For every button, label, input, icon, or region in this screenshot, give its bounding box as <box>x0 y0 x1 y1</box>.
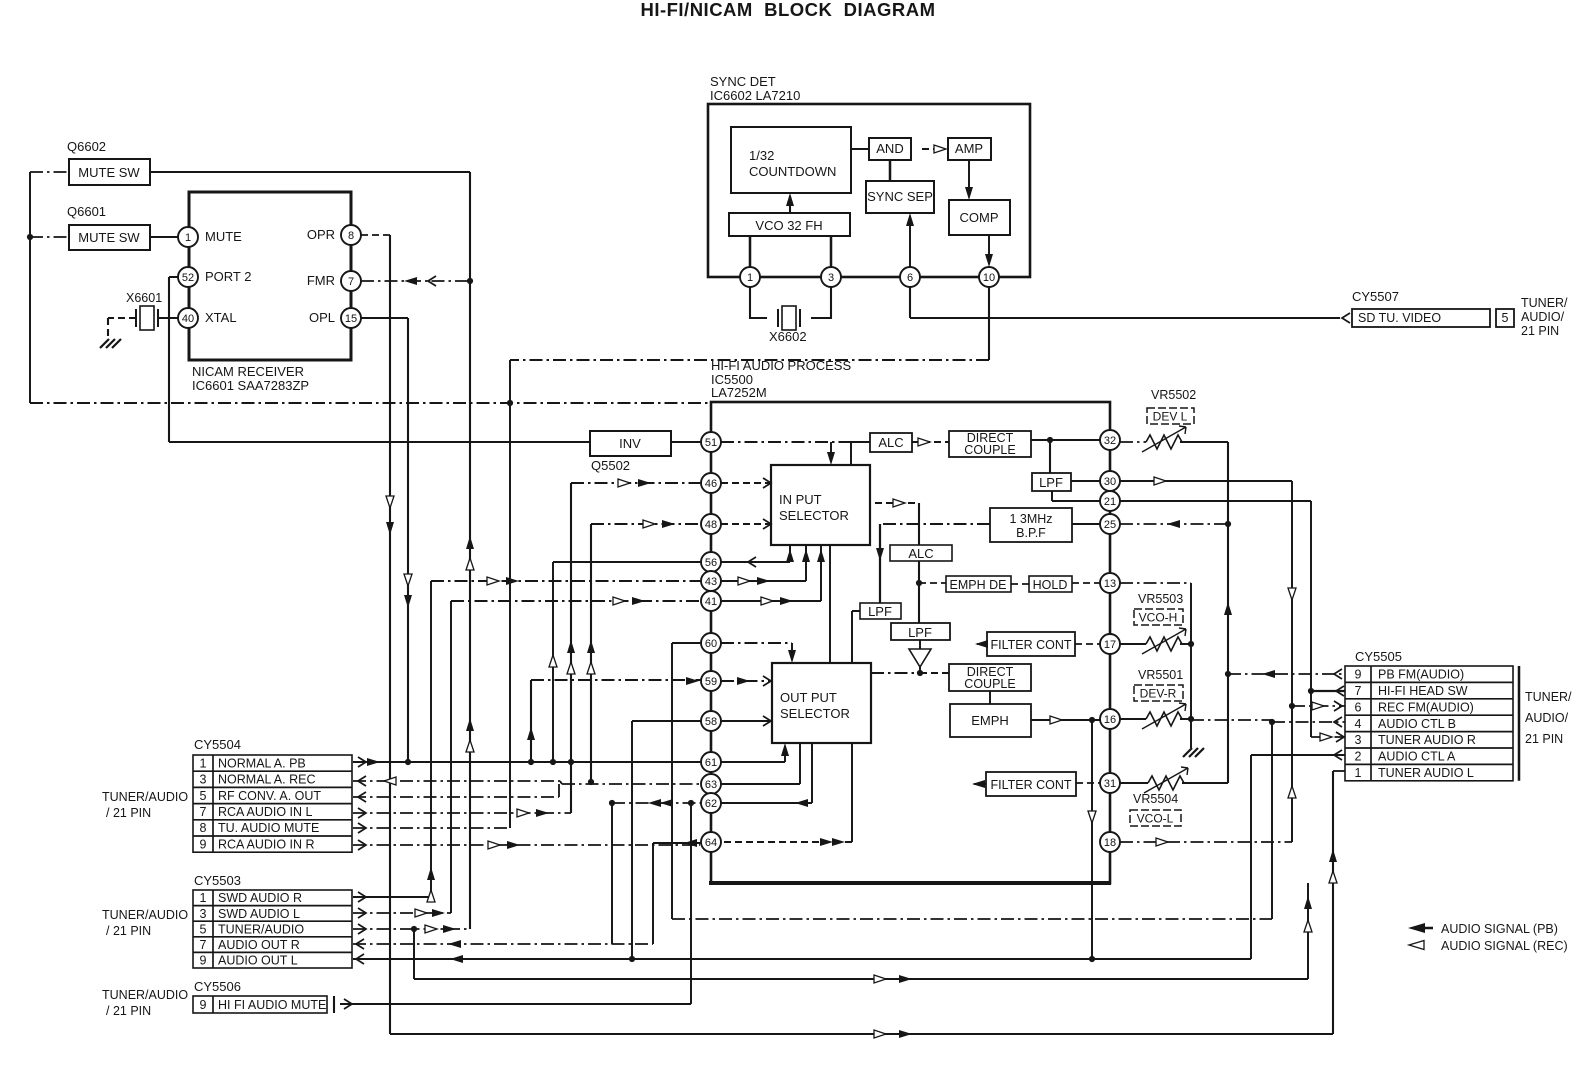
gate AND <box>869 138 911 160</box>
svg-text:AUDIO CTL B: AUDIO CTL B <box>1378 717 1456 731</box>
svg-text:AUDIO SIGNAL (REC): AUDIO SIGNAL (REC) <box>1441 939 1568 953</box>
wire FMR row <box>361 280 470 282</box>
wire HOLD to pin 13 <box>1072 582 1100 584</box>
wire pin 10 down and left to junction <box>988 287 990 360</box>
svg-text:7: 7 <box>348 276 354 288</box>
pin 56 (IC5500 left) <box>701 552 721 572</box>
svg-text:6: 6 <box>1355 700 1362 714</box>
wire pin 31 to VR5504 <box>1120 782 1148 784</box>
wire rail pin60 to AUDIO OUT R <box>611 803 613 944</box>
wire rail y979 <box>414 929 1308 979</box>
svg-text:MUTE: MUTE <box>205 229 242 244</box>
wire TUNER AUDIO R row <box>1311 736 1345 738</box>
svg-text:HI-FI HEAD SW: HI-FI HEAD SW <box>1378 684 1468 698</box>
svg-text:VCO-H: VCO-H <box>1139 611 1178 625</box>
block FILTER CONT (to pin 31) <box>986 772 1076 796</box>
block SYNC SEP <box>866 181 934 213</box>
svg-text:AUDIO/: AUDIO/ <box>1521 310 1565 324</box>
block LPF (to pin 30) <box>1032 473 1071 491</box>
svg-text:IN PUT: IN PUT <box>779 492 822 507</box>
block LPF (small left) <box>860 603 901 619</box>
block 1/32 COUNTDOWN <box>731 127 851 193</box>
svg-text:8: 8 <box>200 821 207 835</box>
wire REC FM row <box>1292 705 1345 707</box>
wire pin 30 row and rail <box>1120 480 1292 482</box>
svg-text:ALC: ALC <box>908 546 933 561</box>
svg-text:TUNER AUDIO L: TUNER AUDIO L <box>1378 766 1474 780</box>
connector CY5504 <box>102 737 352 852</box>
wire rail up to TUNER AUDIO L <box>1332 771 1334 1034</box>
svg-text:1: 1 <box>200 891 207 905</box>
svg-text:56: 56 <box>705 557 717 569</box>
oscillator VCO 32 FH <box>729 213 850 236</box>
pin 15 OPL <box>309 308 361 328</box>
pin 1 MUTE <box>178 227 242 247</box>
IC U5500 HI-FI AUDIO PROCESS block <box>709 358 1111 883</box>
svg-text:MUTE SW: MUTE SW <box>78 165 140 180</box>
svg-text:EMPH DE: EMPH DE <box>950 578 1007 592</box>
svg-text:7: 7 <box>200 938 207 952</box>
wire LPF to pin 21 <box>1052 491 1100 501</box>
svg-text:REC FM(AUDIO): REC FM(AUDIO) <box>1378 700 1474 714</box>
pin 62 (IC5500 left) <box>701 793 721 813</box>
wire pin 43 row <box>431 580 701 582</box>
wire pin 62 row left <box>612 802 701 804</box>
svg-text:FMR: FMR <box>307 273 335 288</box>
legend: audio signal REC <box>1409 939 1568 953</box>
pin 6 (sync det) <box>900 267 920 287</box>
pin 60 (IC5500 left) <box>701 633 721 653</box>
wire pin 21 row and rail <box>1120 500 1311 502</box>
inverter Q5502 INV <box>590 431 671 473</box>
wire pin 32 to VR5502 <box>1120 441 1146 443</box>
wire to EMPH DE <box>919 582 946 584</box>
svg-text:SELECTOR: SELECTOR <box>779 508 849 523</box>
svg-text:1: 1 <box>1355 766 1362 780</box>
pin 46 (IC5500 left) <box>701 473 721 493</box>
wire y919 dash rail <box>672 918 1272 920</box>
wire pin 6 to SYNC SEP <box>909 216 911 267</box>
svg-text:1 3MHz: 1 3MHz <box>1009 512 1052 526</box>
wire FILTER CONT left arrow <box>977 643 987 645</box>
svg-text:TUNER/AUDIO: TUNER/AUDIO <box>102 908 188 922</box>
wire countdown to AND <box>851 148 869 150</box>
svg-text:10: 10 <box>983 272 995 284</box>
svg-text:CY5505: CY5505 <box>1355 649 1402 664</box>
wire VCO to countdown <box>789 196 791 213</box>
amplifier triangle (inverter) <box>909 649 931 667</box>
svg-text:32: 32 <box>1104 435 1116 447</box>
svg-text:/ 21 PIN: / 21 PIN <box>106 806 151 820</box>
svg-text:21 PIN: 21 PIN <box>1521 324 1559 338</box>
svg-text:30: 30 <box>1104 476 1116 488</box>
wire pin 59 into output selector <box>721 680 771 682</box>
IC U6602 SYNC DET block <box>708 74 1030 277</box>
IC U6601 NICAM RECEIVER block <box>189 192 351 393</box>
wire FILTER CONT 2 left arrow <box>974 783 986 785</box>
wire TUNER AUDIO L row stub <box>1333 770 1345 772</box>
svg-text:6: 6 <box>907 272 913 284</box>
wire pin 56 row left <box>553 561 701 563</box>
svg-text:SYNC DET: SYNC DET <box>710 74 776 89</box>
svg-text:OUT PUT: OUT PUT <box>780 690 837 705</box>
pin 16 (IC5500 right) <box>1100 709 1120 729</box>
wire rail pin60 to audio ctl B <box>671 643 673 919</box>
svg-text:TUNER/: TUNER/ <box>1525 690 1572 704</box>
wire HI FI AUDIO MUTE row <box>340 1003 691 1005</box>
wire pin 13 to bias rail <box>1120 582 1191 584</box>
svg-text:15: 15 <box>345 313 357 325</box>
svg-text:EMPH: EMPH <box>971 713 1009 728</box>
wire OPL pin 15 down rail <box>361 317 408 319</box>
wire AUDIO OUT L row <box>353 958 1251 960</box>
pin 13 (IC5500 right) <box>1100 573 1120 593</box>
connector CY5506 HI FI AUDIO MUTE <box>102 979 334 1018</box>
svg-text:48: 48 <box>705 519 717 531</box>
svg-text:PB FM(AUDIO): PB FM(AUDIO) <box>1378 668 1464 682</box>
wire junction to output selector <box>871 672 920 674</box>
svg-text:17: 17 <box>1104 639 1116 651</box>
wire PB FM row <box>1228 673 1345 675</box>
svg-text:/ 21 PIN: / 21 PIN <box>106 1004 151 1018</box>
svg-text:X6601: X6601 <box>126 291 162 305</box>
filter 1.3MHz B.P.F <box>990 508 1072 542</box>
wire TUNER/AUDIO row <box>353 928 470 930</box>
svg-text:COUPLE: COUPLE <box>964 443 1015 457</box>
potentiometer VR5503 VCO-H <box>1134 592 1183 625</box>
wire pin 16 junction down to AUDIO OUT L <box>1091 720 1093 959</box>
svg-text:63: 63 <box>705 779 717 791</box>
wire HI-FI HEAD SW row <box>1311 690 1345 692</box>
wire OPR pin 8 down left rail <box>361 234 390 236</box>
wire bottom rail y1034 <box>390 1033 1333 1035</box>
svg-text:NICAM RECEIVER: NICAM RECEIVER <box>192 364 304 379</box>
wire audio ctl B rail <box>1271 722 1273 919</box>
svg-text:60: 60 <box>705 638 717 650</box>
wire pin 6 to SD TU VIDEO <box>909 287 911 318</box>
wire rail pin 41 to SWD AUDIO L <box>450 601 452 913</box>
wire Q6602 MUTE SW to FMR / tuner audio rail <box>150 171 470 173</box>
block LPF (mid) <box>891 623 950 640</box>
svg-text:LPF: LPF <box>868 604 892 619</box>
pin 7 FMR <box>307 271 361 291</box>
legend: audio signal PB <box>1408 922 1558 936</box>
svg-text:8: 8 <box>348 230 354 242</box>
svg-text:AMP: AMP <box>955 141 983 156</box>
svg-text:40: 40 <box>182 313 194 325</box>
svg-text:43: 43 <box>705 576 717 588</box>
wire hi-fi mute rail <box>690 803 692 1004</box>
potentiometer VR5501 DEV-R <box>1134 668 1183 701</box>
wire junction to LPF <box>1049 440 1051 473</box>
svg-text:DEV-R: DEV-R <box>1140 687 1177 701</box>
svg-text:1: 1 <box>185 232 191 244</box>
wire pin 60 into output selector top <box>721 642 792 644</box>
wire pin 18 row <box>1120 841 1292 843</box>
wire pin 17 to VR5503 <box>1120 643 1146 645</box>
svg-text:AUDIO SIGNAL (PB): AUDIO SIGNAL (PB) <box>1441 922 1558 936</box>
wire pin 56 rail <box>552 562 554 762</box>
svg-text:AUDIO/: AUDIO/ <box>1525 711 1569 725</box>
svg-text:AUDIO CTL A: AUDIO CTL A <box>1378 750 1456 764</box>
svg-text:LA7252M: LA7252M <box>711 385 767 400</box>
wire pin 25 row <box>1120 523 1228 525</box>
wire VR5502 to vertical <box>1180 441 1228 443</box>
wire dashed into AMP <box>922 148 944 150</box>
pin 40 XTAL <box>178 308 237 328</box>
svg-text:59: 59 <box>705 676 717 688</box>
svg-text:SELECTOR: SELECTOR <box>780 706 850 721</box>
block ALC (mid) <box>890 545 952 561</box>
svg-text:CY5506: CY5506 <box>194 979 241 994</box>
svg-text:NORMAL A. PB: NORMAL A. PB <box>218 756 306 770</box>
block HOLD <box>1029 576 1072 592</box>
svg-text:52: 52 <box>182 272 194 284</box>
svg-text:9: 9 <box>200 998 207 1012</box>
pin 21 (IC5500 right) <box>1100 491 1120 511</box>
wire pin 60 row <box>672 642 701 644</box>
svg-text:TUNER AUDIO R: TUNER AUDIO R <box>1378 733 1476 747</box>
pin 63 (IC5500 left) <box>701 774 721 794</box>
svg-text:AUDIO OUT L: AUDIO OUT L <box>218 954 298 968</box>
pin 48 (IC5500 left) <box>701 514 721 534</box>
svg-text:21 PIN: 21 PIN <box>1525 732 1563 746</box>
wire RCA AUDIO IN R row <box>353 844 700 846</box>
svg-text:HI FI AUDIO MUTE: HI FI AUDIO MUTE <box>218 998 326 1012</box>
svg-text:OPL: OPL <box>309 310 335 325</box>
svg-text:7: 7 <box>200 805 207 819</box>
svg-text:21: 21 <box>1104 496 1116 508</box>
svg-text:3: 3 <box>1355 733 1362 747</box>
potentiometer VR5502 DEV L <box>1147 388 1196 424</box>
pin 64 (IC5500 left) <box>701 832 721 852</box>
svg-text:46: 46 <box>705 478 717 490</box>
pin 61 (IC5500 left) <box>701 752 721 772</box>
svg-text:9: 9 <box>1355 668 1362 682</box>
pin 18 (IC5500 right) <box>1100 832 1120 852</box>
svg-text:TUNER/AUDIO: TUNER/AUDIO <box>102 988 188 1002</box>
svg-text:DEV L: DEV L <box>1153 410 1188 424</box>
svg-text:18: 18 <box>1104 837 1116 849</box>
wire LPF to pin 30 <box>1071 480 1100 482</box>
svg-text:58: 58 <box>705 716 717 728</box>
svg-text:VR5501: VR5501 <box>1138 668 1183 682</box>
wire pin 46 to input selector <box>721 482 771 484</box>
wire BPF left to LPF small <box>880 523 990 525</box>
svg-text:3: 3 <box>200 907 207 921</box>
wire SWD AUDIO L row <box>353 912 451 914</box>
svg-text:SWD AUDIO L: SWD AUDIO L <box>218 907 300 921</box>
svg-text:7: 7 <box>1355 684 1362 698</box>
svg-text:5: 5 <box>200 789 207 803</box>
wire pin 61 into output selector bottom <box>721 746 785 762</box>
wire DIRECT COUPLE to EMPH <box>989 691 991 704</box>
pin 1 (sync det) <box>740 267 760 287</box>
svg-text:COMP: COMP <box>960 210 999 225</box>
svg-text:SWD AUDIO R: SWD AUDIO R <box>218 891 302 905</box>
svg-text:HI-FI/NICAM BLOCK DIAGRAM: HI-FI/NICAM BLOCK DIAGRAM <box>640 0 935 20</box>
svg-text:3: 3 <box>828 272 834 284</box>
transistor Q6601 MUTE SW <box>67 204 150 250</box>
block FILTER CONT (to pin 17) <box>987 632 1075 656</box>
wire output selector stub to pin 63 <box>721 743 800 784</box>
ground (X6601) <box>100 339 121 348</box>
wire VCO to pin 1 <box>749 236 752 267</box>
wire AUDIO CTL B row <box>1272 721 1345 723</box>
svg-text:SYNC SEP: SYNC SEP <box>867 189 933 204</box>
wire pin 58 into output selector <box>721 720 771 722</box>
wire AUDIO OUT R row <box>353 943 653 945</box>
svg-text:5: 5 <box>200 922 207 936</box>
svg-text:X6602: X6602 <box>769 329 807 344</box>
svg-text:PORT 2: PORT 2 <box>205 269 251 284</box>
crystal X6602 <box>750 287 831 344</box>
wire BPF to pin 25 <box>1072 523 1100 525</box>
svg-text:Q6602: Q6602 <box>67 139 106 154</box>
comparator COMP <box>949 200 1010 235</box>
svg-text:4: 4 <box>1355 717 1362 731</box>
svg-text:MUTE SW: MUTE SW <box>78 230 140 245</box>
connector CY5505 <box>1345 649 1572 781</box>
wire VCO to pin 3 <box>830 236 833 267</box>
svg-text:AND: AND <box>876 141 903 156</box>
wire pin 48 row <box>591 523 701 525</box>
svg-text:FILTER CONT: FILTER CONT <box>990 778 1071 792</box>
svg-text:25: 25 <box>1104 519 1116 531</box>
pin 17 (IC5500 right) <box>1100 634 1120 654</box>
wire AUDIO CTL A rail <box>1250 755 1252 959</box>
wire FILTER CONT to pin 17 <box>1075 643 1100 645</box>
wire output selector stub to pin 64 <box>851 743 853 842</box>
pin 10 (sync det) <box>979 267 999 287</box>
block DIRECT COUPLE (lower) <box>949 664 1031 691</box>
svg-text:FILTER CONT: FILTER CONT <box>990 638 1071 652</box>
svg-text:VR5502: VR5502 <box>1151 388 1196 402</box>
wire LPF to triangle amp <box>919 640 921 649</box>
svg-text:IC6602 LA7210: IC6602 LA7210 <box>710 88 800 103</box>
wire pin 16 to AUDIO CTL B row <box>1191 719 1272 721</box>
wire AMP to COMP <box>968 160 970 197</box>
wire rail pin 43 to SWD AUDIO R <box>430 581 432 897</box>
svg-text:64: 64 <box>705 837 717 849</box>
svg-text:61: 61 <box>705 757 717 769</box>
pin 59 (IC5500 left) <box>701 671 721 691</box>
wire pin 46 row <box>571 482 701 484</box>
wire REC branch into ALC chain <box>875 502 916 504</box>
crystal X6601 <box>108 291 178 338</box>
pin 43 (IC5500 left) <box>701 571 721 591</box>
pin 31 (IC5500 right) <box>1100 773 1120 793</box>
wire pin 46 loop rail <box>570 483 572 813</box>
wire ALC to DIRECT COUPLE <box>912 441 949 443</box>
wire LPF small to output selector top <box>852 611 860 663</box>
transistor Q6602 MUTE SW <box>67 139 150 185</box>
wire SWD AUDIO R row <box>353 896 431 898</box>
ground (VR rail) <box>1183 748 1204 757</box>
svg-text:XTAL: XTAL <box>205 310 237 325</box>
svg-text:Q6601: Q6601 <box>67 204 106 219</box>
svg-text:1: 1 <box>747 272 753 284</box>
svg-text:VCO-L: VCO-L <box>1137 812 1174 826</box>
svg-text:TU. AUDIO MUTE: TU. AUDIO MUTE <box>218 821 319 835</box>
svg-text:5: 5 <box>1502 311 1509 325</box>
wire pin 41 to input selector bottom <box>721 545 821 601</box>
svg-text:OPR: OPR <box>307 227 335 242</box>
pin 41 (IC5500 left) <box>701 591 721 611</box>
wire pin 32 rail down <box>1227 442 1229 783</box>
wire pin 56 to input selector bottom <box>721 545 790 562</box>
amplifier AMP <box>948 138 991 160</box>
block IN PUT SELECTOR <box>771 465 870 545</box>
svg-text:SD TU. VIDEO: SD TU. VIDEO <box>1358 311 1441 325</box>
svg-text:ALC: ALC <box>878 435 903 450</box>
pin 51 (IC5500 left) <box>701 432 721 452</box>
svg-text:Q5502: Q5502 <box>591 458 630 473</box>
svg-text:31: 31 <box>1104 778 1116 790</box>
wire pin 48 loop rail to pin 63 <box>590 524 592 782</box>
svg-text:TUNER/AUDIO: TUNER/AUDIO <box>102 790 188 804</box>
wire rail pin64 to AUDIO OUT R <box>652 843 654 944</box>
wire RCA AUDIO IN L row <box>353 812 571 814</box>
pin 58 (IC5500 left) <box>701 711 721 731</box>
potentiometer VR5504 VCO-L <box>1130 792 1181 826</box>
svg-text:IC6601 SAA7283ZP: IC6601 SAA7283ZP <box>192 378 309 393</box>
svg-text:3: 3 <box>200 773 207 787</box>
svg-text:9: 9 <box>200 837 207 851</box>
wire DIRECT COUPLE to pin 32 <box>1031 439 1100 441</box>
wire PORT 2 to INV <box>169 277 590 442</box>
wire INV to pin 51 <box>671 441 701 443</box>
svg-text:2: 2 <box>1355 750 1362 764</box>
pin 3 (sync det) <box>821 267 841 287</box>
wire pin 51 to input selector and ALC <box>721 441 851 443</box>
svg-text:9: 9 <box>200 954 207 968</box>
block ALC (top) <box>870 433 912 452</box>
wire node rail y403 to IC5500 corner <box>30 402 711 404</box>
svg-text:CY5503: CY5503 <box>194 873 241 888</box>
wire NORMAL A. REC row to pin 63 <box>353 781 701 784</box>
wire TU AUDIO MUTE row / pin 10 rail <box>353 827 510 829</box>
wire FILTER CONT 2 to pin 31 <box>1076 782 1100 784</box>
wire EMPH to pin 16 <box>1031 719 1100 721</box>
svg-text:HI-FI AUDIO PROCESS: HI-FI AUDIO PROCESS <box>711 358 851 373</box>
svg-text:CY5504: CY5504 <box>194 737 241 752</box>
wire COMP to pin 10 <box>988 235 990 264</box>
block DIRECT COUPLE (top) <box>949 431 1031 457</box>
wire Q6601 MUTE SW to pin 1 <box>150 236 178 238</box>
svg-text:16: 16 <box>1104 714 1116 726</box>
svg-text:COUPLE: COUPLE <box>964 677 1015 691</box>
svg-text:/ 21 PIN: / 21 PIN <box>106 924 151 938</box>
wire mute rail left vertical <box>30 171 69 173</box>
wire AUDIO CTL A row <box>1251 754 1345 756</box>
svg-text:TUNER/AUDIO: TUNER/AUDIO <box>218 922 304 936</box>
wire output selector stub to pin 62 <box>721 743 812 803</box>
wire RF CONV A OUT row <box>353 784 559 797</box>
wire input selector to output selector <box>829 545 831 663</box>
svg-text:51: 51 <box>705 437 717 449</box>
svg-text:NORMAL A. REC: NORMAL A. REC <box>218 773 315 787</box>
wire pin 59 loop rail <box>530 680 532 762</box>
connector CY5503 <box>102 873 352 968</box>
svg-text:COUNTDOWN: COUNTDOWN <box>749 164 836 179</box>
svg-text:13: 13 <box>1104 578 1116 590</box>
wire NORMAL A. PB row to pin 61 <box>353 761 701 763</box>
svg-text:AUDIO OUT R: AUDIO OUT R <box>218 938 300 952</box>
svg-text:62: 62 <box>705 798 717 810</box>
wire pin 58 rail to AUDIO OUT L <box>632 721 701 959</box>
svg-text:RF CONV. A. OUT: RF CONV. A. OUT <box>218 789 321 803</box>
